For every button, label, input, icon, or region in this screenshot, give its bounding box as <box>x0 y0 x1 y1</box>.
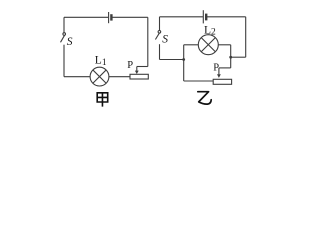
battery B1 short thick plate <box>110 14 112 20</box>
svg-text:S: S <box>67 36 73 48</box>
rheostat box P (jia) <box>130 74 148 79</box>
slider arrow shaft <box>218 68 220 75</box>
wire lamp-right vertical <box>230 45 232 68</box>
wire node A to rheostat <box>184 80 214 82</box>
wire left edge upper <box>63 17 65 33</box>
lamp L1 circle <box>90 67 109 86</box>
wire left edge lower <box>159 44 161 59</box>
wire left-edge horizontal <box>160 59 184 61</box>
switch S1 blade <box>61 35 65 42</box>
rheostat box P (yi) <box>213 79 231 84</box>
lamp L2 cross <box>201 38 215 52</box>
slider arrowhead <box>217 74 221 78</box>
wire top-right segment <box>207 16 246 18</box>
lamp L1 cross <box>93 70 106 83</box>
wire top-right segment <box>112 16 148 18</box>
wire lamp top-right <box>218 44 230 46</box>
wire slider horizontal <box>219 67 231 69</box>
battery B1 long plate <box>108 12 110 23</box>
wire lamp top-left <box>184 44 199 46</box>
slider arrowhead <box>135 71 139 74</box>
wire rail to junction <box>231 56 246 58</box>
svg-text:P: P <box>127 60 133 71</box>
switch S1 hinge circle <box>63 33 66 36</box>
wire to slider <box>137 66 148 68</box>
wire node A vertical <box>183 45 185 81</box>
wire bottom-left segment <box>64 76 90 78</box>
battery B2 short thick plate <box>205 14 207 21</box>
wire left edge lower <box>63 45 65 77</box>
battery B2 long plate <box>202 10 204 23</box>
wire right edge <box>245 17 247 57</box>
wire left edge upper <box>159 17 161 31</box>
switch S2 blade <box>155 33 159 40</box>
svg-text:P: P <box>213 63 219 74</box>
wire top-left segment <box>64 16 108 18</box>
junction dot B <box>229 56 232 59</box>
wire top-left segment <box>160 16 203 18</box>
switch S2 hinge circle <box>158 31 161 34</box>
junction dot A <box>182 58 185 61</box>
lamp L2 circle <box>198 35 218 55</box>
label yi (CJK) <box>198 92 211 104</box>
slider arrow shaft <box>136 67 138 72</box>
wire right edge <box>147 17 149 66</box>
label jia (CJK) <box>97 93 108 107</box>
wire bottom: resistor to lamp <box>109 76 130 78</box>
svg-text:S: S <box>162 34 168 46</box>
